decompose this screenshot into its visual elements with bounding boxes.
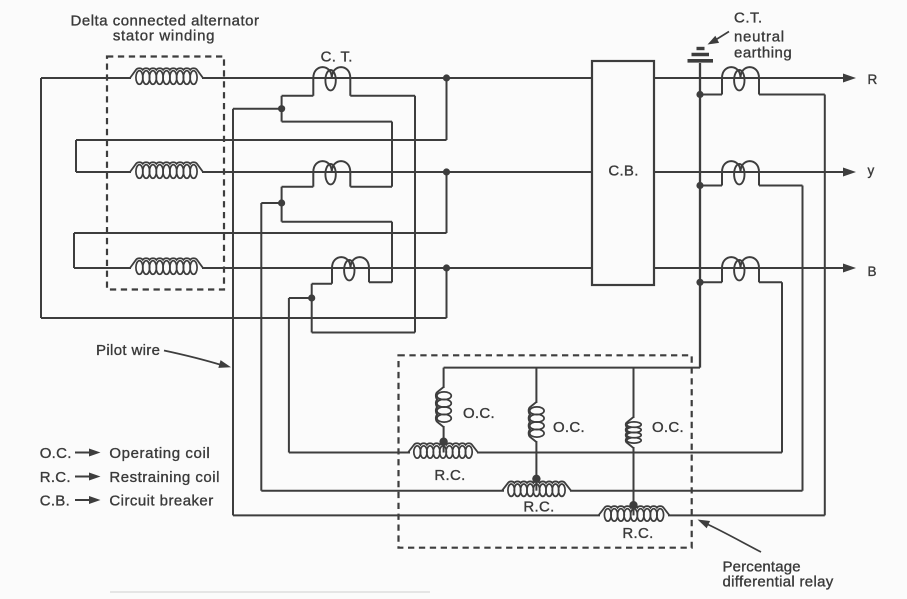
svg-text:Circuit breaker: Circuit breaker — [109, 492, 213, 509]
svg-text:y: y — [868, 163, 875, 178]
svg-text:R.C.: R.C. — [40, 469, 71, 486]
svg-text:C.B.: C.B. — [40, 492, 70, 509]
svg-text:C.T.: C.T. — [734, 10, 763, 27]
svg-text:R.C.: R.C. — [434, 467, 465, 484]
svg-text:O.C.: O.C. — [463, 405, 495, 422]
svg-text:R: R — [868, 72, 878, 87]
svg-text:Restraining coil: Restraining coil — [109, 469, 220, 486]
svg-text:R.C.: R.C. — [523, 499, 554, 516]
svg-text:earthing: earthing — [734, 45, 792, 62]
svg-text:O.C.: O.C. — [652, 419, 684, 436]
svg-text:Operating coil: Operating coil — [109, 445, 210, 462]
svg-text:C.B.: C.B. — [608, 162, 638, 179]
svg-text:differential relay: differential relay — [723, 574, 834, 591]
svg-text:neutral: neutral — [734, 28, 785, 45]
svg-text:O.C.: O.C. — [553, 419, 585, 436]
svg-text:O.C.: O.C. — [40, 445, 72, 462]
svg-text:stator winding: stator winding — [113, 28, 215, 45]
svg-text:B: B — [868, 264, 877, 279]
svg-text:C. T.: C. T. — [321, 49, 353, 66]
svg-text:R.C.: R.C. — [622, 525, 653, 542]
svg-text:Pilot wire: Pilot wire — [96, 342, 160, 359]
